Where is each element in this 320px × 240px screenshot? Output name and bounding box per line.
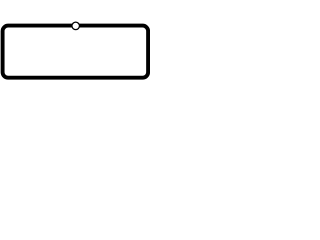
wire loop (rounded-rectangle circuit outline) xyxy=(3,26,149,78)
node (open terminal circle on top wire) xyxy=(72,22,80,30)
